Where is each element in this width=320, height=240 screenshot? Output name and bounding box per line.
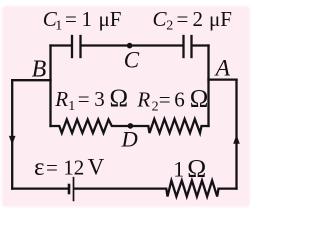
svg-text:R2=6Ω: R2=6Ω <box>136 86 208 115</box>
svg-text:R1=3Ω: R1=3Ω <box>54 85 128 114</box>
svg-text:B: B <box>32 56 47 82</box>
svg-text:C2=2μF: C2=2μF <box>153 7 232 34</box>
svg-text:ε=12V: ε=12V <box>34 154 105 181</box>
svg-text:C: C <box>124 48 140 73</box>
svg-text:D: D <box>121 127 138 152</box>
svg-text:A: A <box>214 56 231 82</box>
svg-text:1Ω: 1Ω <box>173 154 206 183</box>
svg-text:C1=1μF: C1=1μF <box>43 7 122 34</box>
